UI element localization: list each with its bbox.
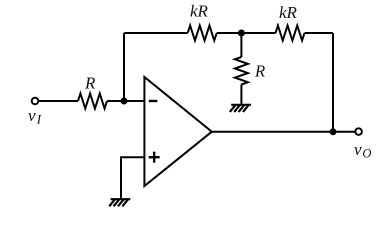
ground G1 (non-inverting input): [109, 199, 130, 206]
node C junction dot (output): [330, 128, 337, 135]
svg-text:kR: kR: [279, 3, 298, 22]
ground G2 (below R4): [230, 105, 251, 112]
svg-text:R: R: [254, 62, 266, 81]
node A junction dot (inverting input): [121, 98, 128, 105]
resistor R1 (R, input): [78, 94, 107, 109]
node B junction dot (T middle): [238, 30, 245, 37]
output terminal circle (v_O): [355, 128, 362, 135]
svg-text:kR: kR: [190, 2, 209, 21]
op-amp plus pin marker: [149, 152, 160, 163]
wire resistor R4 to ground: [240, 85, 242, 105]
wire input terminal to resistor R1: [39, 100, 78, 102]
wire resistor R1 to op-amp inverting input: [107, 100, 144, 102]
wire top feedback left segment: [124, 32, 188, 34]
op-amp U1 triangle: [144, 77, 211, 186]
wire riser node A up to feedback line: [123, 33, 125, 101]
wire op-amp output to terminal: [212, 131, 355, 133]
resistor R2 (kR, left): [188, 26, 217, 41]
resistor R4 (R, shunt to ground): [235, 57, 248, 85]
input terminal circle (v_I): [32, 98, 39, 105]
wire non-inverting input to ground stub: [121, 157, 144, 199]
svg-text:vI: vI: [28, 106, 42, 127]
op-amp minus pin marker: [149, 100, 158, 102]
resistor R3 (kR, right): [276, 26, 305, 41]
wire between kR resistors: [217, 32, 276, 34]
wire node B down to resistor R4: [240, 33, 242, 57]
wire kR right to output riser: [305, 32, 334, 34]
svg-text:vO: vO: [354, 140, 371, 161]
wire riser feedback down to output node: [332, 33, 334, 132]
svg-text:R: R: [84, 74, 96, 93]
